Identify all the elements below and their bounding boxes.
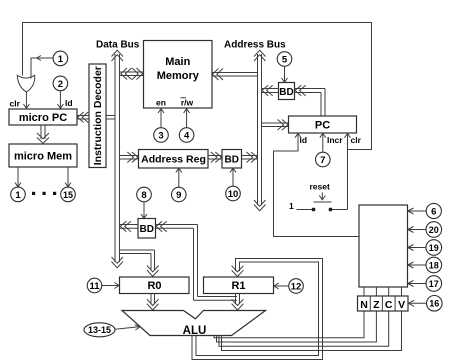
svg-text:r/w: r/w (181, 98, 194, 108)
register micro PC (9, 109, 77, 125)
buffer BD (address reg) (222, 150, 242, 169)
svg-text:5: 5 (282, 54, 288, 65)
wire control 10 to BD (230, 168, 236, 186)
wire flag stubs (364, 287, 402, 296)
wire control 7 to PC Incr (320, 133, 326, 152)
svg-text:BD: BD (279, 87, 293, 98)
svg-text:Z: Z (373, 299, 380, 311)
wire control 8 to data BD (141, 202, 147, 219)
memory Main Memory (144, 41, 213, 109)
wire OR gate output to micro PC clr (23, 92, 29, 108)
svg-text:Memory: Memory (157, 70, 200, 82)
node 3 (154, 128, 169, 143)
bus address bus to PC (262, 120, 289, 131)
node 5 (277, 52, 292, 67)
bus Instruction Decoder to micro PC (77, 112, 89, 123)
svg-text:C: C (385, 299, 393, 311)
svg-text:15: 15 (63, 190, 73, 200)
bus address bus vertical (254, 50, 266, 211)
node 11 (87, 278, 102, 293)
memory micro Mem (9, 144, 77, 167)
bus ALU output loop to R1 (192, 259, 323, 360)
buffer BD (PC to address bus) (279, 83, 295, 100)
bus PC to BD (295, 85, 326, 116)
node 12 (289, 279, 304, 294)
wire PC ld from flags box (274, 133, 360, 236)
svg-text:ld: ld (65, 98, 73, 108)
wire ALU flag Z (217, 311, 377, 342)
register flag cells N Z C V (358, 296, 409, 311)
node 16 (427, 296, 443, 312)
svg-text:18: 18 (429, 260, 439, 270)
bus BD to address bus (242, 152, 258, 163)
svg-text:BD: BD (139, 224, 153, 235)
bus data bus to Main Memory (bidirectional) (120, 68, 144, 80)
svg-text:20: 20 (429, 225, 439, 235)
node micro signal 1 (11, 187, 26, 202)
wire ALU flag V (222, 311, 402, 351)
node 6 (426, 203, 441, 218)
svg-text:10: 10 (228, 189, 239, 200)
wire ALU flag C (219, 311, 389, 346)
wire control 11 to R0 (102, 283, 119, 289)
svg-text:2: 2 (58, 79, 63, 90)
bus BD to address bus (left) (262, 85, 279, 96)
svg-text:PC: PC (315, 120, 330, 132)
node 2 (control signal 2) (53, 76, 68, 91)
register PC (289, 116, 357, 133)
switch SW1 (reset) (297, 202, 348, 211)
node 13-15 oval (84, 323, 115, 337)
svg-text:R0: R0 (147, 280, 161, 292)
wire control 18 (408, 262, 426, 268)
wire control 16 to V cell (408, 300, 426, 306)
svg-text:Main: Main (165, 56, 190, 68)
bus data bus to Instruction Decoder (106, 116, 115, 120)
wire control 3 to en (158, 109, 164, 128)
svg-text:clr: clr (351, 135, 362, 145)
bus R1 branch into BD (156, 221, 238, 300)
svg-text:9: 9 (176, 190, 181, 201)
svg-text:12: 12 (291, 281, 302, 292)
node 1 (control signal 1) (53, 51, 68, 66)
node 10 (226, 186, 241, 201)
wire control 4 to r/w (184, 109, 190, 128)
svg-text:R1: R1 (231, 280, 245, 292)
svg-text:BD: BD (224, 155, 238, 166)
svg-text:1: 1 (15, 190, 21, 201)
node 19 (426, 240, 442, 256)
wire ALU flag N (214, 311, 364, 338)
svg-text:clr: clr (10, 99, 21, 109)
svg-text:4: 4 (184, 130, 190, 141)
bus R1 to ALU (232, 294, 244, 311)
wire control 9 to Address Reg (176, 168, 182, 187)
svg-text:Incr: Incr (327, 135, 343, 145)
wire control 19 (408, 245, 426, 251)
svg-text:1: 1 (58, 54, 64, 65)
svg-text:ALU: ALU (183, 325, 207, 337)
svg-text:17: 17 (429, 279, 439, 289)
svg-text:19: 19 (429, 243, 439, 253)
bus micro PC to micro Mem (37, 125, 49, 143)
bus data bus vertical (112, 50, 124, 268)
register R1 (204, 277, 274, 294)
node 7 (316, 152, 331, 167)
svg-text:3: 3 (158, 130, 163, 141)
svg-text:Instruction Decoder: Instruction Decoder (92, 66, 104, 165)
svg-text:en: en (156, 98, 166, 108)
decoder Instruction Decoder (89, 64, 106, 168)
svg-text:8: 8 (141, 190, 146, 201)
svg-text:Address Bus: Address Bus (224, 40, 286, 51)
bus data bus to Address Reg (120, 152, 139, 163)
node 20 (426, 222, 442, 238)
buffer BD (data bus) (138, 219, 156, 239)
ellipsis dots (32, 192, 56, 195)
node 9 (172, 187, 187, 202)
node 17 (426, 276, 442, 292)
svg-text:N: N (360, 299, 368, 311)
svg-text:Address Reg: Address Reg (141, 154, 206, 166)
OR gate U1 (micro PC clr) (17, 75, 34, 92)
wire control 5 to BD (282, 66, 288, 82)
register flags/control box (359, 205, 408, 287)
svg-text:7: 7 (320, 155, 325, 166)
wire micro Mem output right (65, 167, 71, 187)
node 4 (179, 128, 194, 143)
wire node 2 to micro PC ld (57, 91, 63, 109)
node 8 (137, 187, 152, 202)
wire control 17 (408, 281, 426, 287)
svg-text:micro PC: micro PC (19, 112, 67, 124)
wire control 13-15 to ALU (115, 325, 140, 330)
svg-text:V: V (398, 299, 405, 311)
svg-text:reset: reset (310, 182, 330, 192)
bus data bus branch to R0 (120, 250, 159, 276)
wire control 6 (408, 208, 426, 214)
svg-text:micro Mem: micro Mem (14, 151, 72, 163)
wire control 12 to R1 (274, 283, 289, 289)
wire reset loop from switch to micro PC clr gate (23, 23, 372, 150)
node 18 (426, 257, 442, 273)
svg-text:Data Bus: Data Bus (96, 40, 140, 51)
alu ALU (122, 311, 266, 338)
wire PC clr from reset switch (345, 133, 351, 209)
wire reset arrow (319, 193, 325, 200)
wire micro Mem output left (15, 167, 21, 187)
svg-text:ld: ld (300, 135, 308, 145)
bus Address Reg to BD (208, 152, 222, 163)
wire OR gate input from node 1 (31, 56, 53, 79)
register R0 (120, 277, 190, 294)
svg-text:16: 16 (429, 299, 439, 309)
bus address bus to Main Memory (212, 69, 258, 81)
svg-text:6: 6 (431, 206, 436, 217)
svg-text:1: 1 (289, 201, 294, 211)
svg-text:11: 11 (89, 281, 100, 292)
wire control 20 (408, 227, 426, 233)
bus R0 to ALU (147, 294, 159, 311)
bus BD to data bus (120, 221, 139, 232)
svg-text:13-15: 13-15 (88, 325, 111, 335)
register Address Reg (139, 150, 209, 169)
node micro signal 15 (61, 187, 76, 202)
